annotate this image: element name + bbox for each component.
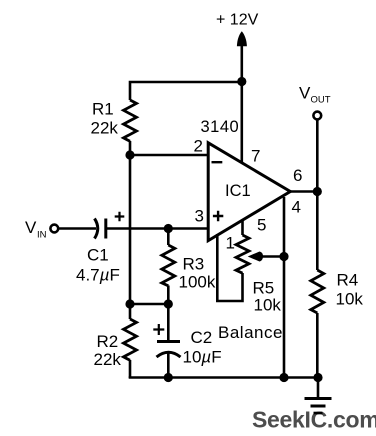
label C2 polarity + [153,324,164,335]
wire pin 5 [241,220,244,235]
svg-text:Balance: Balance [218,323,283,342]
svg-text:100k: 100k [179,273,216,292]
wire pin 2 [130,154,209,157]
op-amp IC1 [208,143,290,241]
node link right [164,299,173,308]
wire R1 to node [129,141,132,155]
wire bottom rail [129,376,318,379]
wire output [290,190,317,193]
svg-text:SeekIC.com: SeekIC.com [252,407,376,433]
svg-text:10k: 10k [254,296,282,315]
svg-text:22k: 22k [91,119,119,138]
node input junction [164,224,173,233]
svg-text:IC1: IC1 [225,182,251,200]
wire C2 bottom [167,353,170,378]
svg-text:6: 6 [293,166,302,185]
capacitor C1 [95,219,98,239]
resistor R2 [124,319,137,360]
svg-text:IN: IN [37,230,47,241]
potentiometer R5 [236,235,249,273]
node output junction [313,187,322,196]
wire R2 bottom [129,360,132,378]
node wiper junction [279,252,288,261]
node pin4 ground [279,373,288,382]
supply arrow [237,31,247,46]
svg-text:10k: 10k [336,290,364,309]
svg-text:4: 4 [292,198,301,217]
node R1 bottom junction [125,150,134,159]
wire bias vertical (R1 to R2) [129,155,132,319]
svg-text:3: 3 [195,207,204,226]
wire bias-to-R3 link [130,303,168,306]
resistor R4 [311,270,324,313]
svg-text:V: V [25,218,37,237]
wire pin 4 [283,197,286,378]
svg-text:V: V [299,84,311,103]
R5 wiper arrow [248,252,263,262]
label C1 polarity + [115,212,125,222]
svg-text:4.7µF: 4.7µF [76,266,120,285]
wire R3 top [167,229,170,246]
svg-text:22k: 22k [94,350,122,369]
ground [305,378,332,414]
svg-text:7: 7 [251,147,260,166]
wire VOUT vertical [316,120,319,271]
resistor R1 [124,100,137,141]
svg-text:2: 2 [194,137,203,156]
wire C2 top [167,304,170,342]
svg-text:+ 12V: + 12V [216,12,259,29]
wire R4 bottom [316,313,319,378]
svg-text:OUT: OUT [311,95,331,106]
wire +12V vertical to pin 7 [241,43,244,164]
capacitor C2 [157,340,180,343]
label non-inverting input + [213,211,223,221]
wire C1 to pin 3 [106,227,209,230]
label inverting input - [212,161,223,163]
node C2 ground [164,373,173,382]
svg-text:C2: C2 [191,328,213,347]
wire VIN to C1 [58,227,96,230]
svg-text:5: 5 [257,216,266,235]
wire top rail [130,82,242,100]
terminal VIN [50,225,58,233]
svg-text:C1: C1 [87,246,109,265]
wire R3 bottom [167,286,170,305]
resistor R3 [162,245,175,286]
svg-text:R1: R1 [92,100,114,119]
wire pin 1 to R5 bottom [217,234,242,301]
svg-text:R3: R3 [183,255,205,274]
wire wiper to pin4 line [259,255,284,258]
svg-text:R4: R4 [337,271,359,290]
node supply junction [237,77,246,86]
node R4 ground [313,373,322,382]
svg-text:R2: R2 [97,332,119,351]
node link left [125,299,134,308]
svg-text:1: 1 [226,234,235,253]
terminal VOUT [313,112,321,120]
svg-text:3140: 3140 [201,118,240,136]
svg-text:10µF: 10µF [183,348,222,367]
